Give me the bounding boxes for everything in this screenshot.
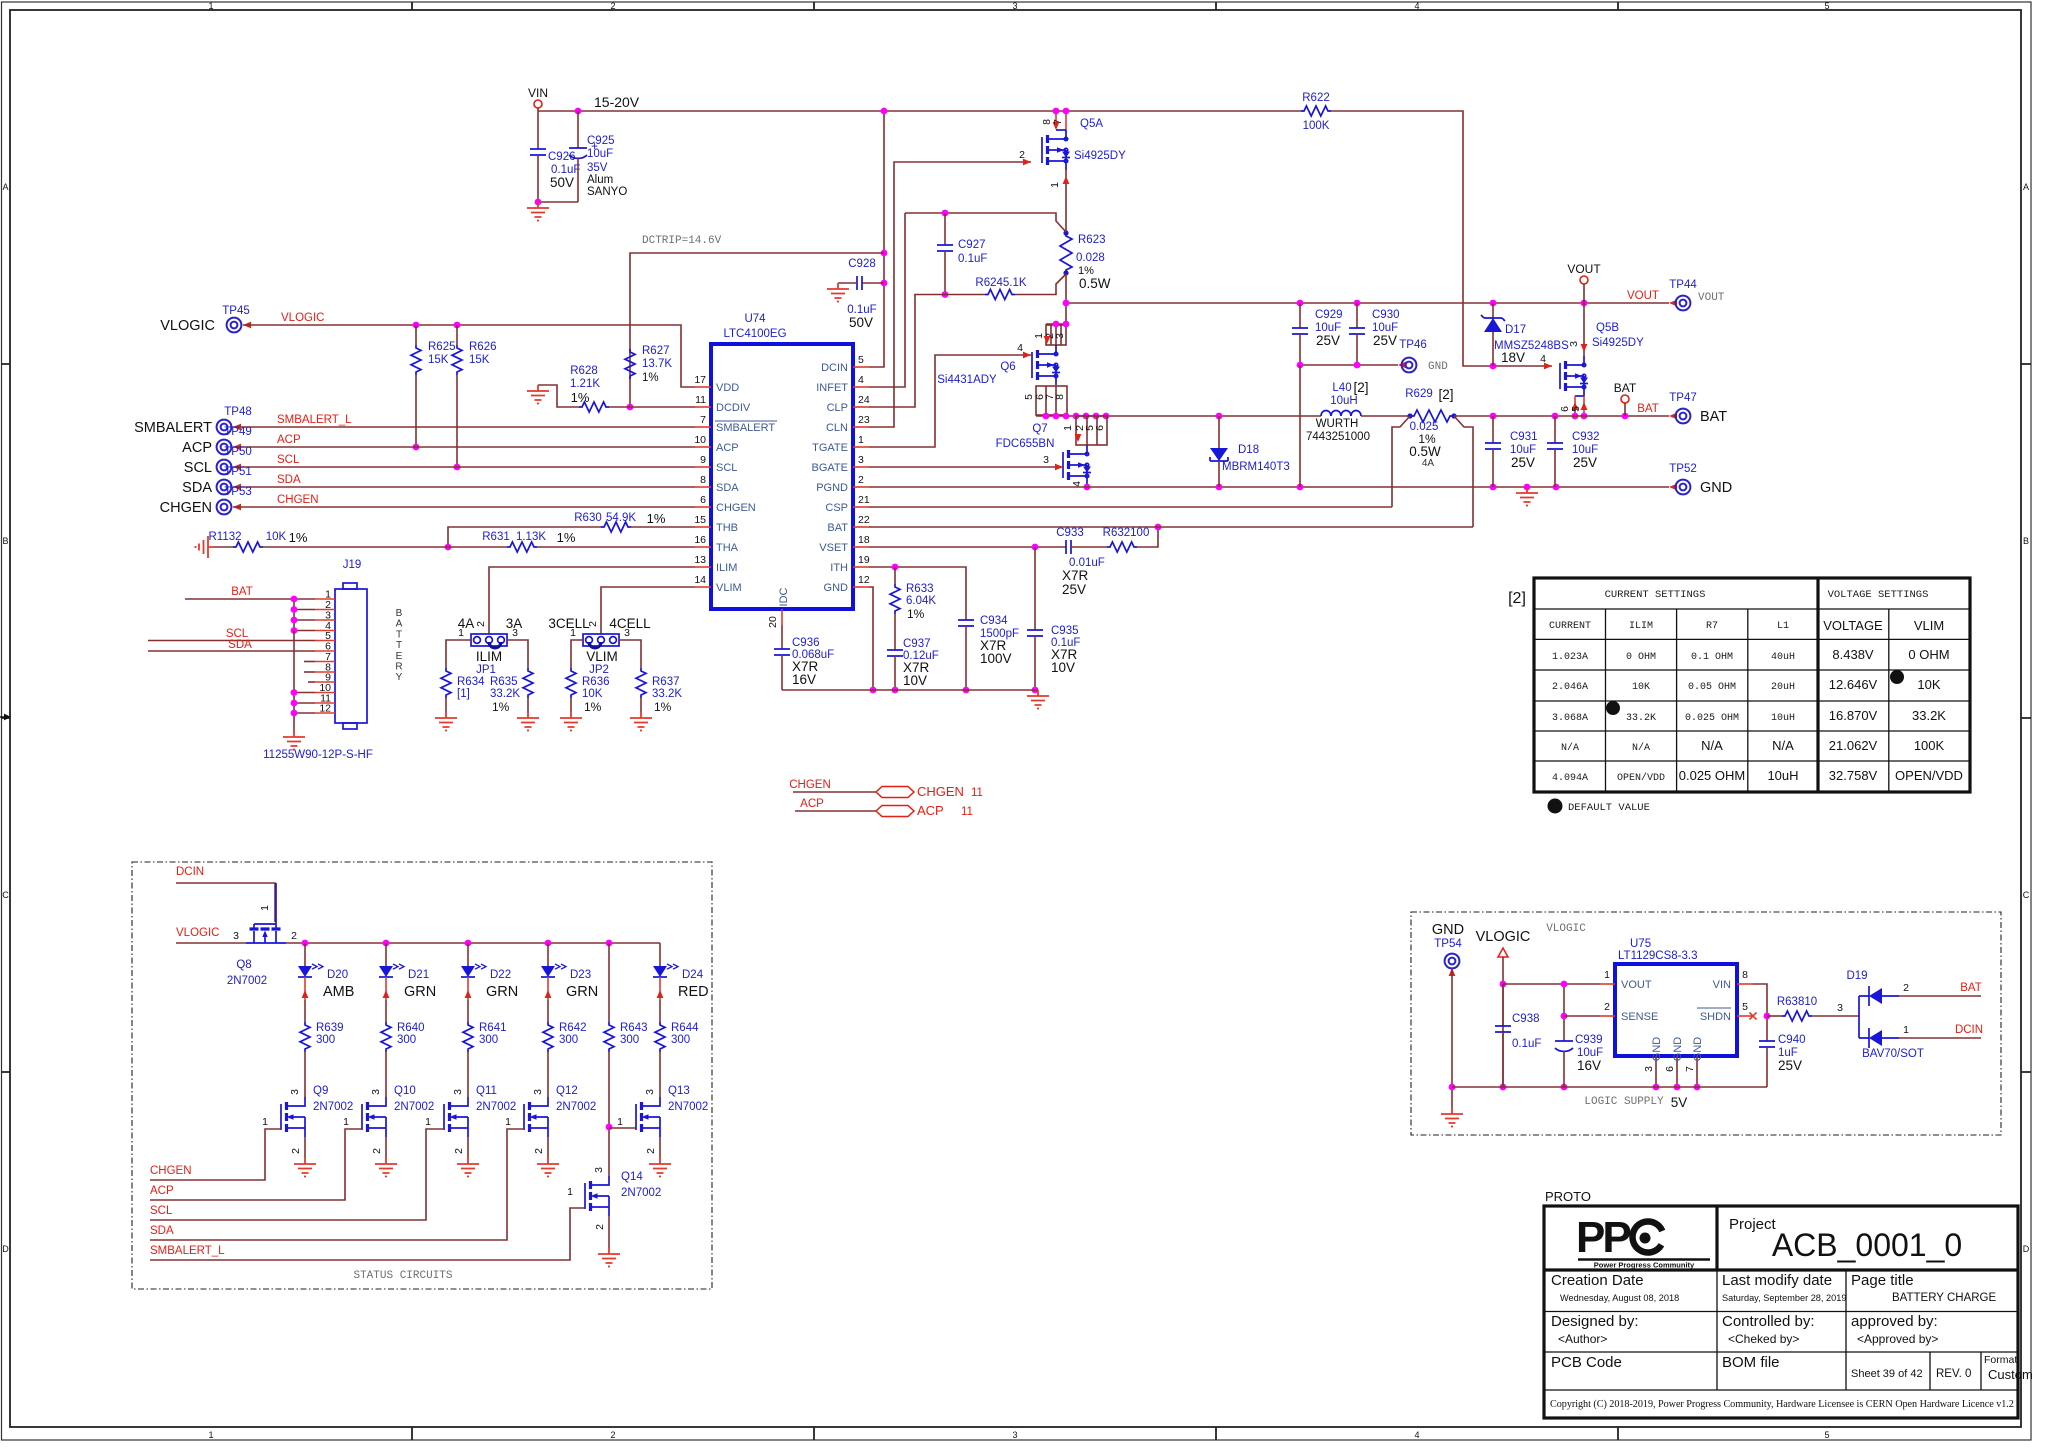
svg-text:15: 15 bbox=[694, 514, 706, 526]
svg-text:4: 4 bbox=[1017, 342, 1023, 354]
svg-text:18: 18 bbox=[858, 534, 870, 546]
svg-text:1: 1 bbox=[1903, 1024, 1909, 1036]
svg-text:3: 3 bbox=[532, 1089, 544, 1095]
inductor L40 bbox=[1321, 411, 1361, 416]
svg-text:1: 1 bbox=[458, 627, 464, 639]
capacitor C935 bbox=[1034, 547, 1036, 630]
svg-text:11: 11 bbox=[961, 806, 973, 818]
svg-text:VOUT: VOUT bbox=[1567, 262, 1601, 276]
wire SDA bbox=[233, 486, 695, 488]
svg-text:ACB_0001_0: ACB_0001_0 bbox=[1772, 1227, 1962, 1263]
svg-text:23: 23 bbox=[858, 414, 870, 426]
svg-text:100K: 100K bbox=[1914, 738, 1945, 753]
svg-text:6: 6 bbox=[1664, 1066, 1676, 1072]
wire C929/C930 gnd link bbox=[1300, 364, 1398, 366]
resistor R630 THB bbox=[631, 526, 695, 528]
test point TP48 SMBALERT bbox=[217, 420, 232, 435]
svg-text:N/A: N/A bbox=[1632, 742, 1650, 754]
jumper JP2 VLIM bbox=[583, 634, 619, 646]
U74 pin 18 VSET bbox=[853, 546, 869, 548]
ground compensation rail bbox=[1027, 690, 1049, 709]
svg-text:Creation Date: Creation Date bbox=[1551, 1272, 1644, 1289]
wire VLOGIC led bus bbox=[286, 942, 660, 944]
resistor R625 bbox=[415, 325, 417, 345]
svg-text:C934: C934 bbox=[980, 615, 1008, 627]
svg-text:10K: 10K bbox=[582, 688, 603, 700]
svg-text:CHGEN: CHGEN bbox=[716, 502, 756, 514]
ground logic supply bbox=[1441, 1108, 1463, 1127]
svg-text:0.025 OHM: 0.025 OHM bbox=[1685, 713, 1739, 724]
svg-text:8: 8 bbox=[700, 474, 706, 486]
U75 pin 2 SENSE bbox=[1600, 1015, 1615, 1017]
capacitor C933 bbox=[1066, 540, 1071, 554]
transistor Q13 2N7002 bbox=[635, 1104, 637, 1130]
wire BAT output bbox=[1454, 415, 1669, 417]
svg-text:2: 2 bbox=[371, 1148, 383, 1154]
resistor R638 10 bbox=[1767, 1015, 1782, 1017]
svg-text:approved by:: approved by: bbox=[1851, 1313, 1938, 1330]
wire Q10 source to ground bbox=[385, 1137, 387, 1158]
svg-text:22: 22 bbox=[858, 514, 870, 526]
svg-text:300: 300 bbox=[316, 1034, 335, 1046]
svg-text:10K: 10K bbox=[1917, 677, 1940, 692]
svg-text:CSP: CSP bbox=[825, 502, 848, 514]
svg-text:19: 19 bbox=[858, 554, 870, 566]
svg-text:R63810: R63810 bbox=[1777, 996, 1817, 1008]
svg-text:WURTH: WURTH bbox=[1316, 418, 1359, 430]
J19 pin 6 bbox=[315, 650, 335, 652]
wire SCL bbox=[233, 466, 695, 468]
power symbol VOUT bbox=[1580, 276, 1588, 284]
ground R637 bbox=[630, 712, 652, 731]
svg-text:VOLTAGE: VOLTAGE bbox=[1823, 618, 1883, 633]
svg-text:C933: C933 bbox=[1056, 527, 1084, 539]
svg-text:2: 2 bbox=[1903, 982, 1909, 994]
resistor R629 sense bbox=[1410, 410, 1454, 422]
svg-text:GND: GND bbox=[1672, 1037, 1684, 1062]
wire logic gnd rail bbox=[1452, 1086, 1767, 1088]
svg-text:DCTRIP=14.6V: DCTRIP=14.6V bbox=[642, 235, 722, 247]
svg-text:100K: 100K bbox=[1303, 120, 1330, 132]
svg-text:2: 2 bbox=[594, 1224, 606, 1230]
svg-text:1: 1 bbox=[425, 1116, 431, 1128]
ground R628 bbox=[527, 385, 549, 404]
svg-text:ITH: ITH bbox=[830, 562, 848, 574]
svg-text:1: 1 bbox=[858, 434, 864, 446]
svg-text:PGND: PGND bbox=[816, 482, 848, 494]
svg-text:4CELL: 4CELL bbox=[609, 616, 651, 631]
wire VOUT rail bbox=[1066, 302, 1669, 304]
resistor R636 bbox=[566, 668, 576, 698]
resistor R623 sense bbox=[1060, 232, 1072, 274]
transistor Q12 2N7002 bbox=[523, 1104, 525, 1130]
svg-text:15K: 15K bbox=[469, 354, 490, 366]
capacitor C927 bbox=[942, 210, 949, 217]
wire JP1 pin1 to R634 bbox=[446, 640, 471, 668]
J19 pin 3 bbox=[315, 619, 335, 621]
svg-text:VOUT: VOUT bbox=[1698, 292, 1725, 304]
svg-text:CHGEN: CHGEN bbox=[789, 779, 831, 791]
svg-text:T: T bbox=[396, 629, 402, 640]
svg-text:4: 4 bbox=[858, 374, 864, 386]
svg-text:ACP: ACP bbox=[150, 1185, 174, 1197]
svg-text:1%: 1% bbox=[557, 530, 576, 545]
svg-text:GRN: GRN bbox=[566, 984, 598, 1000]
svg-text:GND: GND bbox=[824, 582, 849, 594]
svg-text:TGATE: TGATE bbox=[812, 442, 848, 454]
svg-text:C927: C927 bbox=[958, 239, 986, 251]
ground Q13 bbox=[649, 1158, 671, 1177]
capacitor C936 bbox=[774, 649, 790, 655]
ground R1132 bbox=[196, 536, 215, 558]
svg-text:33.2K: 33.2K bbox=[1912, 708, 1946, 723]
wire VLIM bbox=[601, 587, 695, 634]
svg-text:1: 1 bbox=[1062, 425, 1074, 431]
svg-text:VLOGIC: VLOGIC bbox=[281, 312, 324, 324]
status circuits box bbox=[132, 862, 712, 1289]
svg-text:40uH: 40uH bbox=[1771, 652, 1795, 663]
svg-text:2: 2 bbox=[1604, 1001, 1610, 1013]
Q5B source pins 6,5 bbox=[1575, 395, 1584, 397]
svg-text:DCDIV: DCDIV bbox=[716, 402, 751, 414]
svg-text:2N7002: 2N7002 bbox=[556, 1101, 596, 1113]
svg-text:5: 5 bbox=[1824, 1430, 1829, 1440]
svg-text:ACP: ACP bbox=[800, 798, 824, 810]
svg-text:PP: PP bbox=[1576, 1213, 1630, 1262]
svg-text:SMBALERT: SMBALERT bbox=[134, 420, 212, 436]
svg-text:5: 5 bbox=[858, 354, 864, 366]
wire C925/C926 ground bbox=[538, 201, 578, 203]
svg-text:7: 7 bbox=[700, 414, 706, 426]
svg-text:[2]: [2] bbox=[1508, 590, 1526, 607]
wire R622 to Q5B gate bbox=[1331, 111, 1552, 366]
svg-text:VLOGIC: VLOGIC bbox=[1476, 929, 1531, 945]
svg-text:5: 5 bbox=[1570, 406, 1582, 412]
svg-text:4A: 4A bbox=[1422, 458, 1435, 469]
U75 pin 5 SHDN bbox=[1737, 1015, 1753, 1017]
svg-text:D20: D20 bbox=[327, 969, 348, 981]
svg-text:<Author>: <Author> bbox=[1558, 1332, 1607, 1346]
svg-text:7: 7 bbox=[1052, 119, 1064, 125]
svg-text:VOUT: VOUT bbox=[1621, 979, 1652, 991]
ground R635 bbox=[517, 712, 539, 731]
svg-text:3.068A: 3.068A bbox=[1552, 713, 1588, 724]
LED D20 AMB bbox=[304, 943, 306, 966]
svg-text:R629: R629 bbox=[1405, 388, 1433, 400]
ground Q12 bbox=[537, 1158, 559, 1177]
svg-text:D18: D18 bbox=[1238, 444, 1259, 456]
svg-text:10K: 10K bbox=[1632, 682, 1650, 693]
svg-text:Q12: Q12 bbox=[556, 1085, 578, 1097]
svg-text:D17: D17 bbox=[1505, 324, 1526, 336]
connector J19 bbox=[335, 589, 367, 723]
wire Q5A pin1 to R623 bbox=[1065, 170, 1067, 232]
ground Q9 bbox=[294, 1158, 316, 1177]
svg-text:300: 300 bbox=[620, 1034, 639, 1046]
test point TP46 GND bbox=[1398, 362, 1406, 369]
svg-text:JP2: JP2 bbox=[589, 664, 609, 676]
svg-text:BAT: BAT bbox=[1960, 982, 1982, 994]
test point TP50 SCL bbox=[217, 460, 232, 475]
svg-text:3: 3 bbox=[624, 627, 630, 639]
svg-text:DCIN: DCIN bbox=[821, 362, 848, 374]
U74 pin 13 ILIM bbox=[695, 566, 711, 568]
capacitor C934 bbox=[958, 620, 974, 626]
svg-text:C930: C930 bbox=[1372, 309, 1400, 321]
svg-text:TP47: TP47 bbox=[1669, 392, 1697, 404]
wire CHGEN bbox=[233, 506, 695, 508]
svg-text:3: 3 bbox=[858, 454, 864, 466]
U75 pin 8 VIN bbox=[1737, 983, 1753, 985]
svg-text:L40: L40 bbox=[1332, 382, 1351, 394]
ground PGND rail bbox=[1516, 487, 1538, 506]
svg-text:IDC: IDC bbox=[778, 587, 790, 606]
svg-text:LOGIC SUPPLY: LOGIC SUPPLY bbox=[1584, 1096, 1664, 1108]
svg-text:LTC4100EG: LTC4100EG bbox=[723, 328, 786, 340]
svg-text:DEFAULT VALUE: DEFAULT VALUE bbox=[1568, 802, 1650, 814]
svg-text:R630: R630 bbox=[574, 512, 602, 524]
svg-text:1.21K: 1.21K bbox=[570, 378, 600, 390]
wire Q7 gate BGATE bbox=[869, 466, 1062, 468]
wire VIN rail 15-20V bbox=[538, 110, 1301, 112]
svg-text:2: 2 bbox=[610, 1, 615, 11]
J19 pin 7 bbox=[315, 661, 335, 663]
J19 pin 12 bbox=[315, 712, 335, 714]
svg-text:R633: R633 bbox=[906, 583, 934, 595]
svg-text:R641: R641 bbox=[479, 1022, 507, 1034]
U74 pin 20 IDC bbox=[781, 609, 783, 625]
svg-text:ACP: ACP bbox=[716, 442, 739, 454]
svg-text:20: 20 bbox=[767, 616, 779, 628]
transistor Q5A Si4925DY bbox=[1055, 111, 1057, 127]
U74 pin 21 CSP bbox=[853, 506, 869, 508]
svg-text:R1132: R1132 bbox=[208, 531, 241, 543]
svg-text:21.062V: 21.062V bbox=[1829, 738, 1878, 753]
svg-text:Q8: Q8 bbox=[236, 959, 251, 971]
svg-text:N/A: N/A bbox=[1772, 738, 1794, 753]
resistor R622 bbox=[1301, 106, 1331, 116]
wire JP1 pin3 to R635 bbox=[507, 640, 528, 668]
wire VIN stem bbox=[537, 108, 539, 111]
svg-text:ACP: ACP bbox=[182, 440, 212, 456]
wire VSET bbox=[869, 546, 1066, 548]
wire L40 to R629 bbox=[1361, 415, 1410, 417]
svg-text:1: 1 bbox=[343, 1116, 349, 1128]
capacitor C937 bbox=[887, 650, 903, 656]
svg-text:SANYO: SANYO bbox=[587, 186, 627, 198]
svg-text:SMBALERT_L: SMBALERT_L bbox=[277, 414, 352, 426]
svg-text:LT1129CS8-3.3: LT1129CS8-3.3 bbox=[1618, 950, 1697, 962]
svg-text:BAT: BAT bbox=[1700, 409, 1727, 425]
wire U75 SENSE bbox=[1564, 1015, 1600, 1017]
jumper JP1 ILIM bbox=[471, 634, 507, 646]
svg-text:SENSE: SENSE bbox=[1621, 1011, 1658, 1023]
svg-text:C940: C940 bbox=[1778, 1034, 1806, 1046]
wire GND pin12 bbox=[869, 587, 873, 690]
svg-text:R636: R636 bbox=[582, 676, 610, 688]
svg-text:SCL: SCL bbox=[150, 1205, 173, 1217]
svg-text:2: 2 bbox=[453, 1148, 465, 1154]
U74 pin 6 CHGEN bbox=[695, 506, 711, 508]
svg-text:C937: C937 bbox=[903, 638, 931, 650]
wire R643 to Q13 gate bbox=[609, 1127, 636, 1129]
svg-text:ILIM: ILIM bbox=[716, 562, 737, 574]
resistor R626 bbox=[456, 325, 458, 345]
capacitor C940 bbox=[1759, 1041, 1775, 1047]
J19 pin 10 bbox=[315, 692, 335, 694]
svg-text:STATUS CIRCUITS: STATUS CIRCUITS bbox=[353, 1270, 452, 1282]
svg-text:ILIM: ILIM bbox=[1629, 621, 1653, 632]
svg-text:CURRENT: CURRENT bbox=[1549, 621, 1591, 632]
svg-text:B: B bbox=[2023, 536, 2029, 546]
svg-text:R635: R635 bbox=[490, 676, 518, 688]
svg-text:BAV70/SOT: BAV70/SOT bbox=[1862, 1048, 1924, 1060]
svg-text:D: D bbox=[2, 1244, 9, 1254]
J19 pins 7-9 stubs bbox=[304, 661, 315, 663]
svg-text:VLOGIC: VLOGIC bbox=[176, 927, 219, 939]
svg-text:GND: GND bbox=[1651, 1037, 1663, 1062]
svg-text:R639: R639 bbox=[316, 1022, 344, 1034]
svg-text:Q6: Q6 bbox=[1000, 361, 1015, 373]
U74 pin 3 BGATE bbox=[853, 466, 869, 468]
wire SMBALERT_L bbox=[233, 426, 695, 428]
svg-text:REV. 0: REV. 0 bbox=[1936, 1368, 1971, 1380]
svg-text:4: 4 bbox=[1071, 481, 1083, 487]
wire VLOGIC bbox=[243, 325, 695, 387]
svg-text:2: 2 bbox=[645, 1148, 657, 1154]
offpage flag CHGEN bbox=[876, 787, 914, 798]
resistor R641 bbox=[463, 1022, 473, 1052]
svg-text:PROTO: PROTO bbox=[1545, 1189, 1591, 1204]
wire Q7 source to PGND bbox=[1086, 485, 1088, 487]
svg-text:2: 2 bbox=[290, 1148, 302, 1154]
resistor R642 bbox=[543, 1022, 553, 1052]
capacitor C928 bbox=[862, 282, 884, 284]
svg-text:15K: 15K bbox=[428, 354, 449, 366]
svg-text:9: 9 bbox=[700, 454, 706, 466]
svg-text:11: 11 bbox=[971, 787, 983, 799]
svg-text:16: 16 bbox=[694, 534, 706, 546]
svg-text:Y: Y bbox=[396, 672, 403, 683]
svg-text:5V: 5V bbox=[1671, 1095, 1688, 1110]
svg-text:GRN: GRN bbox=[404, 984, 436, 1000]
svg-text:D22: D22 bbox=[490, 969, 511, 981]
svg-text:R627: R627 bbox=[642, 345, 670, 357]
transistor Q10 2N7002 bbox=[361, 1104, 363, 1130]
svg-text:VLOGIC: VLOGIC bbox=[160, 318, 215, 334]
svg-text:Copyright (C) 2018-2019, Power: Copyright (C) 2018-2019, Power Progress … bbox=[1550, 1399, 2014, 1410]
ground C928 bbox=[827, 283, 849, 302]
svg-text:DCIN: DCIN bbox=[176, 866, 204, 878]
J19 pin 8 bbox=[315, 671, 335, 673]
J19 pin 11 bbox=[315, 702, 335, 704]
capacitor C925 bbox=[577, 111, 579, 148]
svg-text:VLIM: VLIM bbox=[1914, 618, 1944, 633]
svg-text:3: 3 bbox=[452, 1089, 464, 1095]
resistor R633 bbox=[894, 567, 896, 584]
J19 pin 9 bbox=[315, 681, 335, 683]
svg-text:SCL: SCL bbox=[277, 454, 300, 466]
resistor R643 bbox=[608, 943, 610, 1022]
wire DCTRIP bbox=[630, 253, 884, 349]
svg-text:1: 1 bbox=[262, 1116, 268, 1128]
wire PGND rail bbox=[869, 486, 1669, 488]
svg-text:SCL: SCL bbox=[184, 460, 212, 476]
wire DCDIV bbox=[630, 406, 695, 408]
svg-text:10: 10 bbox=[694, 434, 706, 446]
ground Q10 bbox=[375, 1158, 397, 1177]
svg-text:25V: 25V bbox=[1573, 455, 1597, 470]
svg-text:20uH: 20uH bbox=[1771, 682, 1795, 693]
svg-text:12: 12 bbox=[858, 574, 870, 586]
svg-text:3: 3 bbox=[1012, 1, 1017, 11]
svg-text:Sheet 39 of 42: Sheet 39 of 42 bbox=[1851, 1368, 1923, 1380]
wire switch node bbox=[1036, 415, 1321, 417]
svg-text:BATTERY CHARGE: BATTERY CHARGE bbox=[1892, 1292, 1996, 1304]
svg-text:4: 4 bbox=[1414, 1430, 1419, 1440]
svg-text:R642: R642 bbox=[559, 1022, 587, 1034]
U74 LTC4100EG body bbox=[711, 344, 853, 609]
transistor Q5B Si4925DY bbox=[1544, 363, 1552, 370]
resistor R632 100 bbox=[1107, 542, 1137, 552]
svg-text:10uH: 10uH bbox=[1771, 713, 1795, 724]
svg-text:2N7002: 2N7002 bbox=[394, 1101, 434, 1113]
svg-text:C939: C939 bbox=[1575, 1034, 1603, 1046]
svg-text:4: 4 bbox=[1540, 353, 1546, 365]
U74 pin 19 ITH bbox=[853, 566, 869, 568]
ground VIN filter bbox=[527, 202, 549, 221]
svg-text:Wednesday, August 08, 2018: Wednesday, August 08, 2018 bbox=[1560, 1293, 1679, 1303]
svg-text:Designed by:: Designed by: bbox=[1551, 1313, 1639, 1330]
svg-text:17: 17 bbox=[694, 374, 706, 386]
wire Q14 source ground bbox=[608, 1216, 610, 1248]
test point TP52 GND bbox=[1669, 484, 1677, 491]
wire R629 kelvin CSP bbox=[1392, 416, 1410, 507]
capacitor C931 bbox=[1492, 416, 1494, 443]
power symbol BAT bbox=[1621, 395, 1629, 403]
wire JP2 pin3 to R637 bbox=[619, 640, 641, 668]
LED D22 GRN bbox=[467, 943, 469, 966]
svg-text:X7R: X7R bbox=[1062, 568, 1089, 583]
Q7 drain pins 1,2,5,6 bbox=[1076, 416, 1107, 445]
svg-text:25V: 25V bbox=[1511, 455, 1535, 470]
svg-text:300: 300 bbox=[397, 1034, 416, 1046]
svg-text:3: 3 bbox=[1043, 454, 1049, 466]
svg-text:R637: R637 bbox=[652, 676, 680, 688]
svg-text:A: A bbox=[2023, 182, 2029, 192]
svg-text:N/A: N/A bbox=[1701, 738, 1723, 753]
svg-text:Si4925DY: Si4925DY bbox=[1074, 150, 1126, 162]
svg-text:THA: THA bbox=[716, 542, 739, 554]
svg-text:ILIM: ILIM bbox=[476, 649, 502, 664]
svg-text:N/A: N/A bbox=[1561, 742, 1579, 754]
svg-text:TP53: TP53 bbox=[224, 486, 252, 498]
svg-text:300: 300 bbox=[671, 1034, 690, 1046]
svg-text:1.13K: 1.13K bbox=[516, 531, 546, 543]
svg-text:10V: 10V bbox=[903, 673, 927, 688]
svg-text:1%: 1% bbox=[492, 700, 510, 714]
svg-text:D23: D23 bbox=[570, 969, 591, 981]
capacitor C926 bbox=[537, 111, 539, 149]
svg-text:SDA: SDA bbox=[716, 482, 739, 494]
svg-text:10uH: 10uH bbox=[1330, 395, 1358, 407]
svg-text:Si4925DY: Si4925DY bbox=[1592, 337, 1644, 349]
svg-text:C932: C932 bbox=[1572, 431, 1600, 443]
svg-text:T: T bbox=[396, 640, 402, 651]
svg-text:C931: C931 bbox=[1510, 431, 1538, 443]
svg-text:0.5W: 0.5W bbox=[1409, 444, 1441, 459]
wire INFET bbox=[869, 213, 905, 387]
